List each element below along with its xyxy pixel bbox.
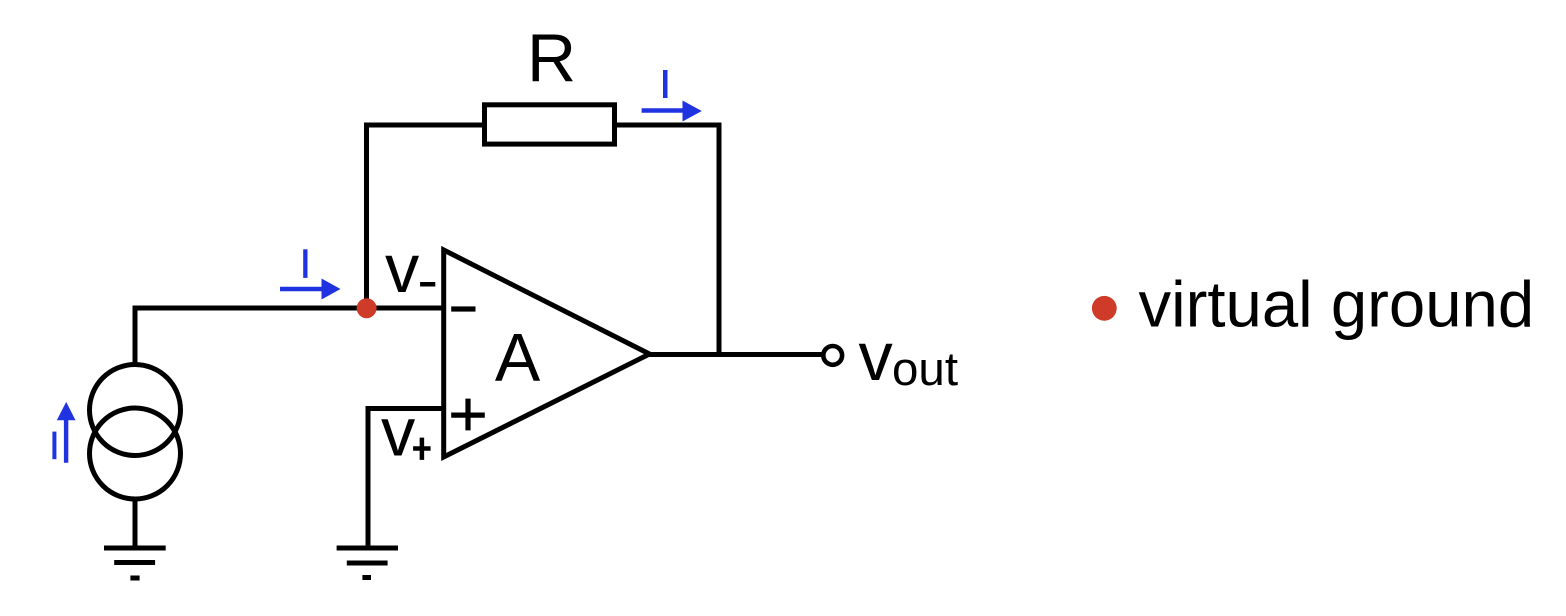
svg-text:A: A — [495, 320, 541, 396]
label I at source arrow — [52, 432, 56, 460]
svg-text:R: R — [527, 21, 576, 97]
svg-text:v: v — [859, 318, 894, 395]
svg-text:out: out — [892, 343, 958, 396]
label I at input arrow — [303, 249, 307, 278]
wire output — [649, 352, 824, 357]
wire feedback left vertical and top segment to resistor — [367, 125, 483, 308]
node virtual ground red dot — [357, 298, 377, 318]
label I at feedback arrow — [663, 70, 668, 98]
op-amp minus sign at inverting input — [451, 306, 475, 311]
op-amp plus sign at non-inverting input — [451, 399, 485, 431]
op-amp U1 triangle — [444, 250, 650, 457]
svg-text:v: v — [385, 230, 420, 307]
bullet virtual ground — [1092, 296, 1117, 321]
current arrow I through feedback — [642, 108, 683, 112]
current arrow I at source (up) — [64, 420, 68, 463]
resistor R — [485, 105, 615, 144]
svg-text:virtual ground: virtual ground — [1139, 268, 1535, 341]
current source I1 circles — [90, 365, 181, 456]
svg-text:v: v — [381, 394, 416, 471]
wire current source bottom to ground — [133, 499, 138, 546]
wire feedback right segment and right vertical down to output — [617, 125, 719, 355]
wire input horizontal from current source to op-amp inverting input — [135, 308, 443, 363]
ground under current source — [104, 548, 166, 578]
output terminal open circle — [823, 346, 842, 365]
ground under op-amp non-inverting input — [337, 548, 398, 578]
wire non-inverting input to ground — [368, 409, 443, 547]
current arrow I into node — [280, 287, 322, 291]
